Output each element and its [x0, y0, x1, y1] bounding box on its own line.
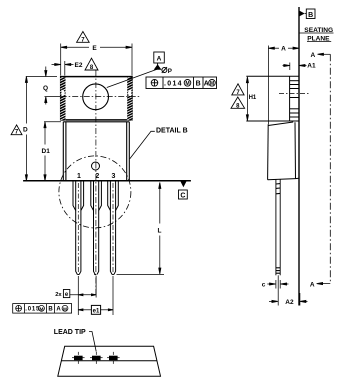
svg-text:M: M [63, 306, 67, 312]
tab hole center line (side view) [279, 92, 309, 94]
feature control frame bottom [13, 304, 72, 314]
svg-text:P: P [168, 68, 172, 75]
svg-text:Q: Q [43, 85, 48, 92]
lead (side view) [276, 179, 280, 275]
svg-text:B: B [308, 12, 313, 19]
svg-text:M: M [210, 81, 214, 87]
dimension Q [45, 67, 47, 105]
seating plane line (side view) [298, 7, 300, 306]
label phi P [162, 68, 167, 73]
svg-text:D: D [23, 127, 28, 134]
seating plane line (front view) [23, 180, 191, 182]
tab (side view) [246, 76, 299, 121]
svg-text:A2: A2 [285, 299, 294, 306]
feature control frame top [146, 77, 217, 89]
lead 3 [108, 182, 119, 275]
mounting hole [83, 84, 109, 110]
dimension L [117, 183, 165, 275]
lead extension lines [78, 276, 113, 315]
index hole [92, 162, 100, 170]
svg-text:A: A [204, 80, 209, 87]
svg-text:2: 2 [95, 173, 99, 180]
svg-text:E2: E2 [75, 62, 83, 69]
svg-text:A: A [311, 52, 316, 59]
svg-text:M: M [40, 306, 44, 312]
lead tip mark 3 [107, 352, 120, 365]
svg-text:.015: .015 [25, 307, 40, 313]
lead hatch bottom [276, 268, 280, 273]
dimension A2 [269, 293, 308, 306]
revision triangle 7 (side) [232, 84, 244, 95]
dimension e1 [78, 309, 113, 311]
svg-text:A: A [157, 56, 162, 63]
svg-text:.014: .014 [164, 80, 183, 87]
svg-text:C: C [180, 193, 185, 200]
bottom view parting line [61, 360, 157, 362]
svg-text:3: 3 [111, 173, 115, 180]
body (side view) [268, 122, 299, 180]
dimension A (package thickness) [268, 46, 299, 125]
detail circle B [59, 156, 131, 228]
svg-text:A: A [281, 46, 286, 53]
datum A flag [154, 52, 165, 63]
horizontal center line [45, 96, 61, 98]
bottom view outline [58, 346, 161, 376]
tab notch right [128, 90, 131, 97]
tab hatched left band [58, 75, 69, 127]
datum A leader [107, 69, 157, 87]
revision triangle 8 (near E2) [85, 58, 98, 70]
svg-text:E: E [92, 45, 97, 52]
lead 2 [91, 182, 102, 275]
svg-text:1: 1 [77, 173, 81, 180]
svg-text:L: L [158, 228, 162, 235]
vertical center line [95, 71, 97, 298]
datum axis A line [329, 54, 331, 283]
revision triangle 7 (near D) [11, 125, 22, 135]
svg-text:LEAD TIP: LEAD TIP [54, 329, 86, 336]
lead hatch top [276, 184, 280, 194]
svg-text:D1: D1 [42, 148, 51, 155]
datum C flag [181, 182, 187, 188]
svg-text:A: A [56, 307, 61, 313]
dimension D1 [44, 122, 61, 181]
lead tip mark 2 [90, 352, 103, 365]
svg-text:DETAIL B: DETAIL B [156, 127, 188, 134]
detail B leader [130, 131, 155, 159]
datum B flag [299, 11, 304, 17]
tab outline (front view) [61, 77, 132, 120]
tab notch left [61, 90, 64, 97]
lead 3 center line [112, 183, 114, 275]
svg-text:M: M [185, 81, 189, 87]
dimension H1 [246, 77, 248, 121]
svg-text:B: B [48, 307, 53, 313]
svg-text:A1: A1 [307, 63, 316, 70]
tab hatched right band [124, 75, 135, 127]
revision triangle 7 (top) [77, 32, 90, 43]
lead tip leader [89, 332, 96, 352]
dimension E [61, 44, 132, 76]
lead 1 [73, 182, 84, 275]
lead end extension line [277, 275, 279, 305]
lead tip mark 1 [72, 352, 85, 365]
svg-text:B: B [196, 80, 201, 87]
svg-text:2x: 2x [55, 292, 62, 298]
svg-text:A: A [310, 282, 315, 289]
svg-text:e1: e1 [93, 309, 100, 315]
svg-text:H1: H1 [249, 95, 257, 101]
dimension A1 [283, 63, 307, 71]
dimension E2 [52, 61, 74, 76]
body (front view) [63, 122, 129, 181]
lead 1 center line [77, 183, 79, 275]
dimension D [25, 77, 57, 181]
svg-text:c: c [262, 282, 266, 289]
revision triangle 8 (side) [231, 97, 245, 108]
